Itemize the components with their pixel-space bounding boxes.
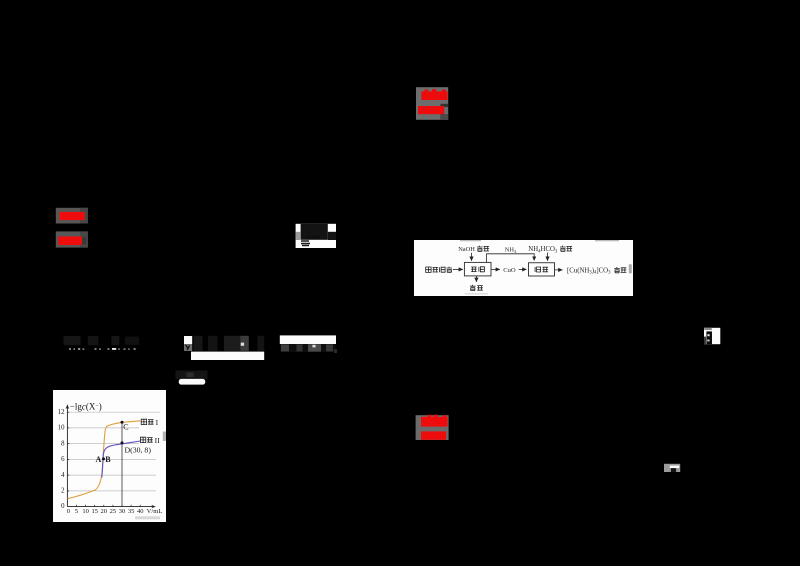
svg-text:V/mL: V/mL bbox=[147, 508, 163, 515]
marker 3 red bar b bbox=[421, 431, 446, 439]
arrow 蚀刻废液 to 沉铜 bbox=[453, 268, 463, 270]
right white patch bbox=[704, 328, 720, 344]
graph white background bbox=[53, 390, 166, 522]
svg-text:CuO: CuO bbox=[503, 267, 516, 274]
arrow CuO to 浸铜 bbox=[519, 268, 527, 270]
flowchart white background bbox=[414, 240, 633, 296]
label NaOH溶液 bbox=[458, 246, 489, 254]
fraction white bar bbox=[179, 379, 206, 385]
label A bbox=[96, 455, 102, 464]
svg-text:D(30, 8): D(30, 8) bbox=[125, 446, 152, 455]
marker 3 red bar a bbox=[421, 415, 448, 427]
label 曲线II bbox=[140, 436, 160, 445]
bottom-right gray patch bbox=[664, 464, 680, 472]
equation patch A base bbox=[296, 224, 336, 248]
marker 2 gray box bbox=[416, 87, 448, 120]
label C bbox=[123, 422, 128, 431]
marker 2 red text line b bbox=[418, 106, 444, 114]
svg-text:15: 15 bbox=[91, 508, 98, 515]
vertical line x=30 bbox=[121, 422, 123, 507]
axis ticks bbox=[67, 412, 140, 506]
middle gray block under square bbox=[184, 344, 192, 351]
svg-text:0: 0 bbox=[67, 508, 70, 515]
label 蚀刻废液 bbox=[426, 267, 452, 273]
middle white square bbox=[184, 336, 192, 344]
arrow NH4HCO3 down bbox=[547, 253, 549, 261]
right white bar bbox=[280, 335, 336, 344]
label NH3 bbox=[505, 247, 517, 254]
flowchart right gray strip bbox=[629, 264, 632, 273]
svg-text:NaOH: NaOH bbox=[458, 246, 475, 253]
marker 2 red text line a bbox=[421, 89, 447, 100]
svg-text:8: 8 bbox=[61, 440, 65, 447]
faint underline below 滤液 bbox=[465, 292, 489, 295]
point A/B dot bbox=[102, 457, 105, 460]
svg-text:40: 40 bbox=[137, 508, 144, 515]
svg-text:0: 0 bbox=[61, 503, 65, 510]
svg-text:35: 35 bbox=[128, 508, 135, 515]
svg-text:12: 12 bbox=[58, 409, 65, 416]
svg-text:4: 4 bbox=[61, 472, 65, 479]
marker 1 red bar b bbox=[58, 236, 86, 245]
arrow NaOH down bbox=[471, 253, 473, 261]
graph right-edge gray nub bbox=[163, 432, 166, 442]
svg-text:II: II bbox=[155, 436, 161, 445]
flowchart top-edge smudges bbox=[460, 240, 619, 241]
box 浸铜 bbox=[529, 263, 555, 276]
graph bottom smudge bbox=[135, 516, 160, 519]
marker 1 red bar a bbox=[60, 212, 85, 220]
label D(30, 8) bbox=[125, 446, 152, 455]
label V/mL bbox=[147, 508, 163, 515]
svg-text:C: C bbox=[123, 422, 128, 431]
label [Cu(NH3)4]CO3溶液 bbox=[567, 267, 626, 276]
y axis numbers bbox=[58, 409, 65, 510]
label 曲线I bbox=[141, 418, 158, 427]
pipe NH3 line bbox=[487, 254, 535, 263]
label -lgc(X-) bbox=[70, 401, 102, 411]
arrow 浸铜 to product bbox=[555, 269, 562, 271]
svg-text:5: 5 bbox=[75, 508, 78, 515]
bottom-right dark mark bbox=[671, 468, 676, 472]
equation patch A dark content bbox=[296, 224, 336, 246]
curve I (orange) bbox=[67, 421, 140, 499]
bottom-right white bar bbox=[670, 466, 679, 468]
marker 3 gray box bbox=[416, 415, 449, 440]
curve II (blue) bbox=[102, 441, 141, 478]
label CuO bbox=[503, 267, 516, 274]
label NH4HCO3溶液 bbox=[528, 246, 572, 255]
arrow 沉铜 to CuO bbox=[491, 268, 500, 270]
svg-text:2: 2 bbox=[61, 488, 65, 495]
point D dot bbox=[121, 441, 124, 444]
faint text blocks bbox=[64, 336, 140, 345]
svg-text:10: 10 bbox=[82, 508, 89, 515]
right white patch dark glyph bbox=[704, 328, 712, 344]
x axis bbox=[67, 505, 155, 508]
svg-text:A: A bbox=[96, 455, 102, 464]
y axis bbox=[66, 404, 70, 506]
svg-text:6: 6 bbox=[61, 456, 65, 463]
faint speckle row bbox=[69, 348, 136, 350]
middle white bar bbox=[191, 352, 264, 360]
fraction faint top marks bbox=[176, 371, 208, 380]
svg-text:30: 30 bbox=[119, 508, 126, 515]
label B bbox=[105, 455, 111, 464]
svg-text:25: 25 bbox=[110, 508, 117, 515]
arrow 滤液 down bbox=[475, 276, 477, 282]
right glyph row bbox=[280, 344, 337, 353]
svg-text:B: B bbox=[105, 455, 111, 464]
marker 1 gray box a bbox=[56, 208, 88, 224]
middle dark glyph blocks bbox=[194, 336, 265, 351]
gridlines bbox=[67, 412, 160, 491]
marker 1 gray box b bbox=[56, 231, 88, 247]
svg-text:20: 20 bbox=[101, 508, 108, 515]
svg-text:10: 10 bbox=[58, 425, 65, 432]
point C dot bbox=[121, 421, 124, 424]
label 滤液 bbox=[470, 285, 483, 291]
x axis numbers bbox=[67, 508, 144, 515]
box 沉铜 bbox=[464, 262, 491, 276]
